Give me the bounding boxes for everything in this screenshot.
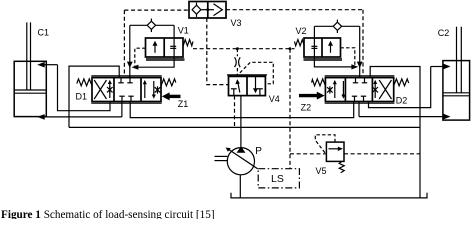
wire V3 outlet drop to V4 pilot: [207, 18, 229, 85]
cylinder C2: [443, 27, 470, 120]
relief valve V5: [315, 135, 344, 173]
wire supply drop to D1 P port with arrow: [127, 25, 133, 77]
unloading valve V4: [227, 75, 267, 96]
svg-text:P: P: [255, 146, 262, 157]
wire C1 bottom port with arrow: [37, 102, 122, 120]
wire V1 outlet with arrow: [132, 57, 175, 70]
svg-text:C1: C1: [38, 28, 50, 38]
svg-text:V1: V1: [178, 26, 189, 36]
svg-text:Z1: Z1: [178, 99, 189, 109]
svg-text:LS: LS: [271, 173, 284, 185]
wire pump suction: [239, 175, 241, 198]
wire V4 right pilot: [240, 62, 273, 84]
wire D2 top T port to right rail: [370, 67, 420, 198]
wire V2 pilot: [341, 48, 355, 66]
check valve left of V1: [130, 19, 174, 38]
pressure compensator V1: [146, 38, 185, 60]
spring D1 left: [77, 79, 92, 86]
spring D2 right: [394, 79, 409, 86]
wire C2 top port with arrow: [369, 64, 451, 108]
svg-text:Figure 1 Schematic of load-sen: Figure 1 Schematic of load-sensing circu…: [1, 209, 215, 219]
wire pilot rail top right: [226, 9, 363, 11]
spring V2: [295, 40, 305, 46]
node junction LS rail to V5: [289, 47, 292, 50]
wire pilot drop to D2 cap: [362, 10, 364, 74]
wire V5 outlet pilot line: [344, 153, 420, 155]
throttle above V4: [235, 49, 241, 75]
svg-text:C2: C2: [438, 28, 450, 38]
svg-text:V5: V5: [316, 166, 327, 176]
wire LS rail between V1 and V2 springs: [193, 48, 295, 50]
wire V2 outlet with arrow: [314, 57, 358, 70]
svg-text:D2: D2: [396, 95, 408, 105]
wire V4 drain dashed: [234, 96, 236, 128]
svg-text:Z2: Z2: [301, 102, 312, 112]
svg-text:V2: V2: [296, 26, 307, 36]
wire tank line between D1 and D2: [130, 102, 354, 118]
arrow Z2: [299, 92, 325, 100]
cylinder C1: [14, 22, 46, 116]
wire LS pilot horizontal to V5: [290, 153, 326, 155]
wire bottom return line: [69, 126, 420, 128]
wire LS pilot vertical: [289, 49, 291, 169]
pressure compensator V2: [304, 38, 343, 60]
wire C2 bottom port with arrow: [359, 102, 451, 119]
wire pilot drop to D1 cap: [123, 10, 125, 74]
node junction LS rail to V4: [236, 47, 239, 50]
spring V1: [183, 40, 193, 46]
wire pilot rail top left: [124, 9, 189, 11]
directional valve D2: [325, 76, 395, 103]
wire V1 pilot: [135, 48, 146, 66]
arrow Z1: [162, 92, 181, 100]
svg-text:V3: V3: [231, 18, 242, 28]
tank reservoir: [231, 193, 427, 198]
pump P: [215, 96, 258, 175]
svg-text:V4: V4: [269, 94, 280, 104]
directional valve D1: [91, 76, 161, 103]
wire D1 top T port to left rail: [69, 66, 119, 127]
spring D1 right: [161, 79, 176, 86]
wire C1 top port with arrow: [37, 62, 110, 111]
LS controller box: [258, 169, 299, 188]
check valve right of V2: [314, 20, 359, 38]
svg-text:D1: D1: [76, 91, 88, 101]
wire supply drop to D2 P port with arrow: [357, 26, 363, 77]
check valve with bypass V3: [189, 2, 226, 19]
spring D2 left: [312, 79, 326, 86]
